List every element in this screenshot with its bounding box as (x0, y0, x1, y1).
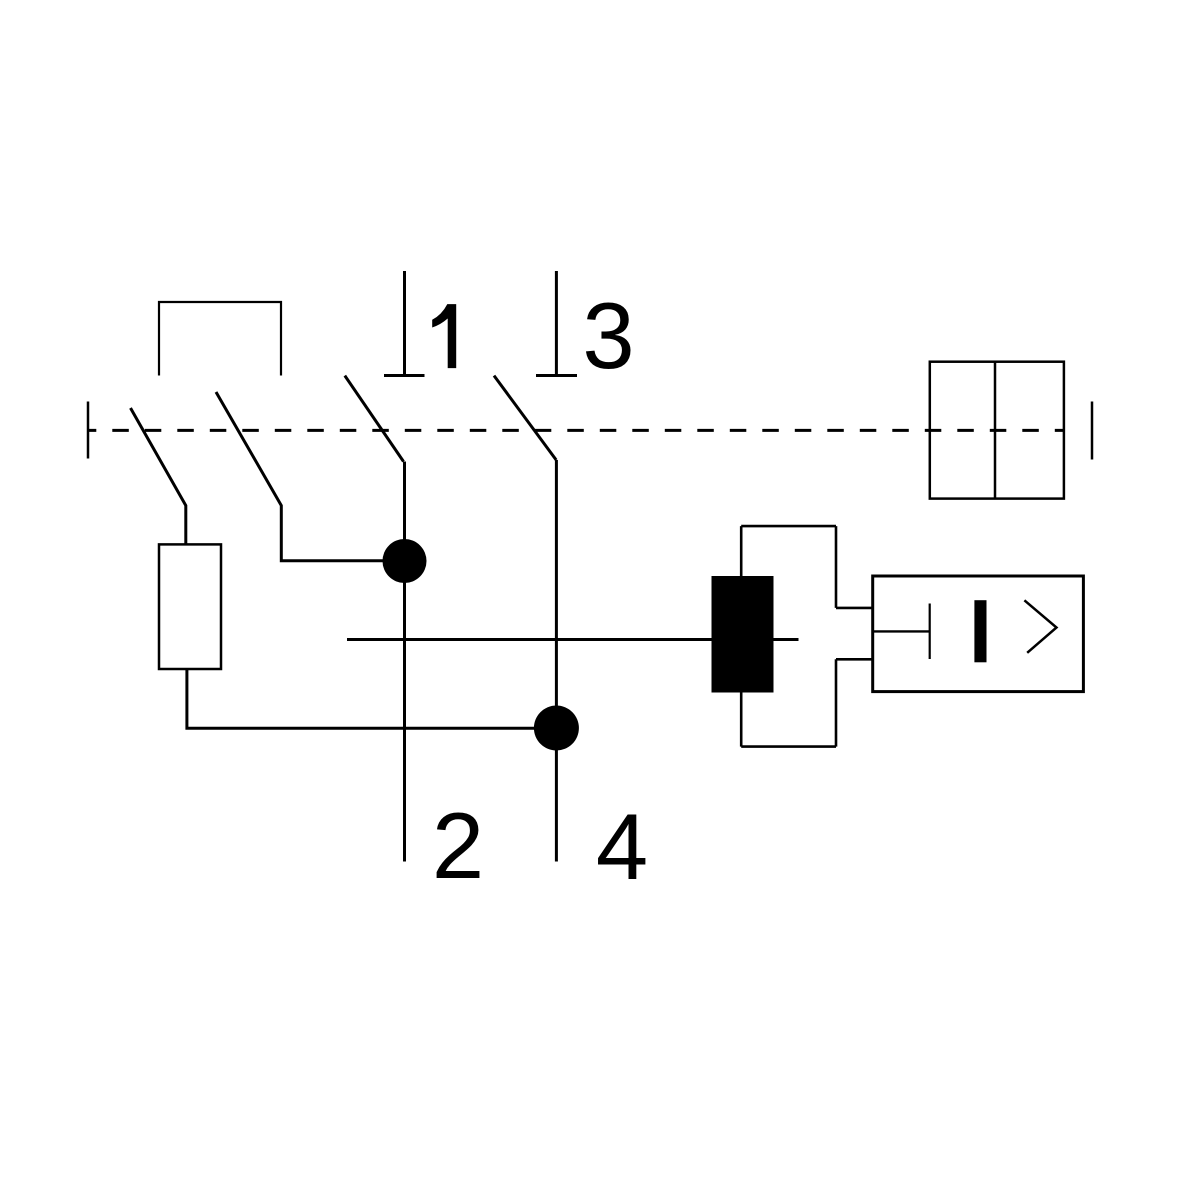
mechanical coupling bracket (159, 302, 281, 376)
terminal 1 bar (384, 374, 425, 377)
test resistor (159, 544, 221, 669)
svg-text:4: 4 (596, 794, 648, 899)
terminal 3 bar (536, 374, 577, 377)
terminal 3 lead (555, 271, 558, 376)
svg-text:2: 2 (432, 793, 484, 898)
right supply terminal tick (1091, 402, 1094, 460)
terminal 1 lead (403, 271, 406, 376)
pole 1 conductor to terminal 2 (403, 462, 406, 862)
actuator housing box (930, 362, 1064, 499)
actuator housing divider (994, 362, 997, 499)
switch contact blade S2 with lead to node A (216, 392, 405, 561)
current symbol I (974, 600, 986, 662)
resistor bottom wire to node B (187, 669, 557, 728)
junction node B (534, 706, 579, 751)
left supply terminal tick (87, 402, 90, 459)
winding outline right lower (835, 659, 838, 746)
relay armature plate (929, 604, 931, 660)
winding outline bottom (741, 745, 836, 748)
sensing toroid core winding outline left (740, 526, 743, 747)
trip relay box (873, 576, 1084, 692)
switch contact blade S1 with lead to test resistor (131, 408, 186, 545)
relay coil lead (873, 630, 930, 632)
primary wire through toroid (347, 638, 799, 641)
winding upper stub to relay (836, 607, 873, 610)
winding outline right upper (835, 526, 838, 608)
svg-text:3: 3 (582, 283, 634, 388)
pin label 1 (432, 304, 456, 368)
winding outline top (741, 525, 836, 528)
dashed mechanical linkage line (88, 429, 1064, 432)
pole 2 conductor to terminal 4 (555, 460, 558, 862)
pole 2 switch blade (494, 376, 556, 460)
winding lower stub to relay (836, 658, 873, 661)
sensing toroid core (black) (712, 576, 774, 693)
pole 1 switch blade (345, 376, 404, 462)
junction node A (383, 539, 427, 583)
greater-than symbol (1024, 600, 1056, 653)
